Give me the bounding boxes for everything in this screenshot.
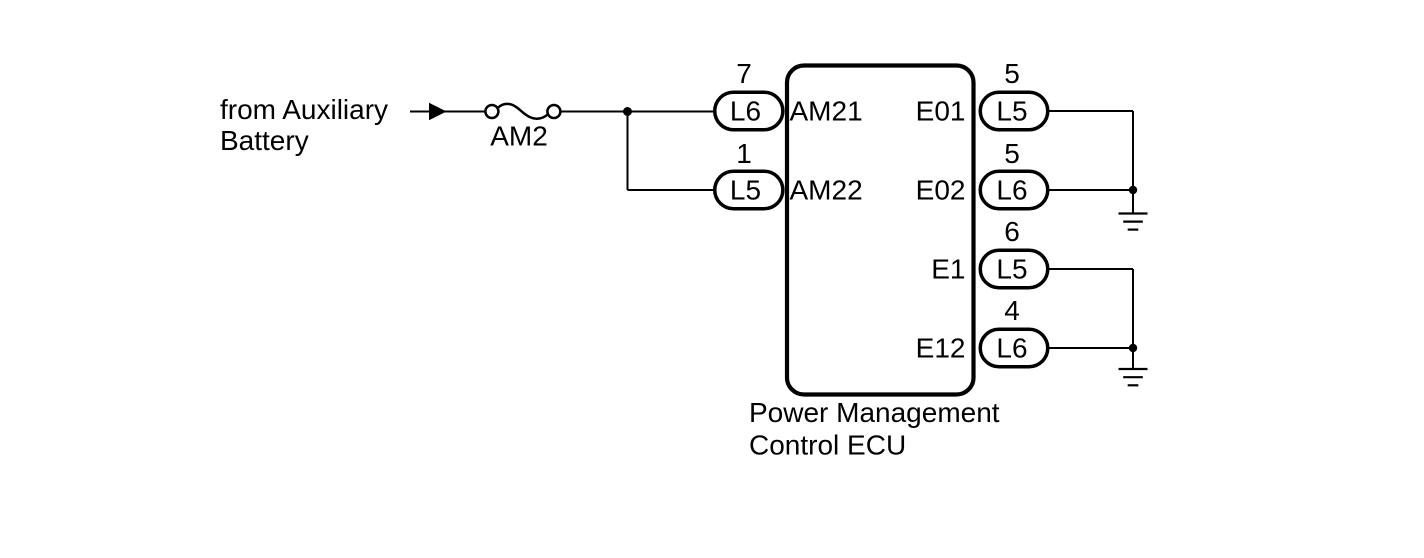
wire	[1132, 111, 1134, 214]
svg-text:L6: L6	[996, 175, 1027, 206]
svg-text:L5: L5	[996, 254, 1027, 285]
svg-text:L5: L5	[730, 175, 761, 206]
ECU body: Power Management Control ECU	[749, 66, 1000, 461]
wire	[560, 111, 714, 113]
connector pin L6 (E02)	[980, 171, 1048, 209]
svg-text:7: 7	[736, 58, 752, 89]
node from Auxiliary Battery	[220, 94, 388, 156]
junction	[1129, 186, 1137, 194]
svg-text:L6: L6	[730, 96, 761, 127]
wire	[627, 112, 629, 191]
svg-text:AM2: AM2	[490, 120, 548, 151]
connector pin L5 (AM22)	[715, 171, 783, 209]
wire	[1049, 268, 1134, 270]
svg-text:E02: E02	[916, 175, 966, 206]
svg-text:AM22: AM22	[790, 175, 863, 206]
svg-text:L6: L6	[996, 333, 1027, 364]
fuse AM2	[485, 104, 560, 119]
connector pin L5 (E01)	[980, 92, 1048, 130]
connector pin L5 (E1)	[980, 250, 1048, 288]
svg-text:E1: E1	[931, 254, 965, 285]
wire	[1049, 189, 1134, 191]
svg-text:E01: E01	[916, 96, 966, 127]
wire	[1049, 347, 1134, 349]
junction	[623, 107, 632, 116]
svg-text:Battery: Battery	[220, 125, 309, 156]
ground	[1119, 214, 1148, 230]
svg-text:L5: L5	[996, 96, 1027, 127]
junction	[1129, 344, 1137, 352]
svg-text:4: 4	[1004, 295, 1020, 326]
svg-text:Control ECU: Control ECU	[749, 430, 906, 461]
svg-text:5: 5	[1004, 58, 1020, 89]
wire	[410, 111, 486, 113]
wire	[1049, 110, 1134, 112]
arrow	[429, 103, 447, 120]
svg-text:Power Management: Power Management	[749, 397, 1000, 428]
svg-text:5: 5	[1004, 138, 1020, 169]
svg-text:AM21: AM21	[790, 96, 863, 127]
svg-text:E12: E12	[916, 333, 966, 364]
svg-text:from Auxiliary: from Auxiliary	[220, 94, 388, 125]
svg-text:6: 6	[1004, 216, 1020, 247]
ground	[1119, 369, 1148, 385]
connector pin L6 (AM21)	[715, 92, 783, 130]
wire	[628, 189, 715, 191]
svg-text:1: 1	[736, 138, 752, 169]
connector pin L6 (E12)	[980, 329, 1048, 367]
wire	[1132, 269, 1134, 369]
